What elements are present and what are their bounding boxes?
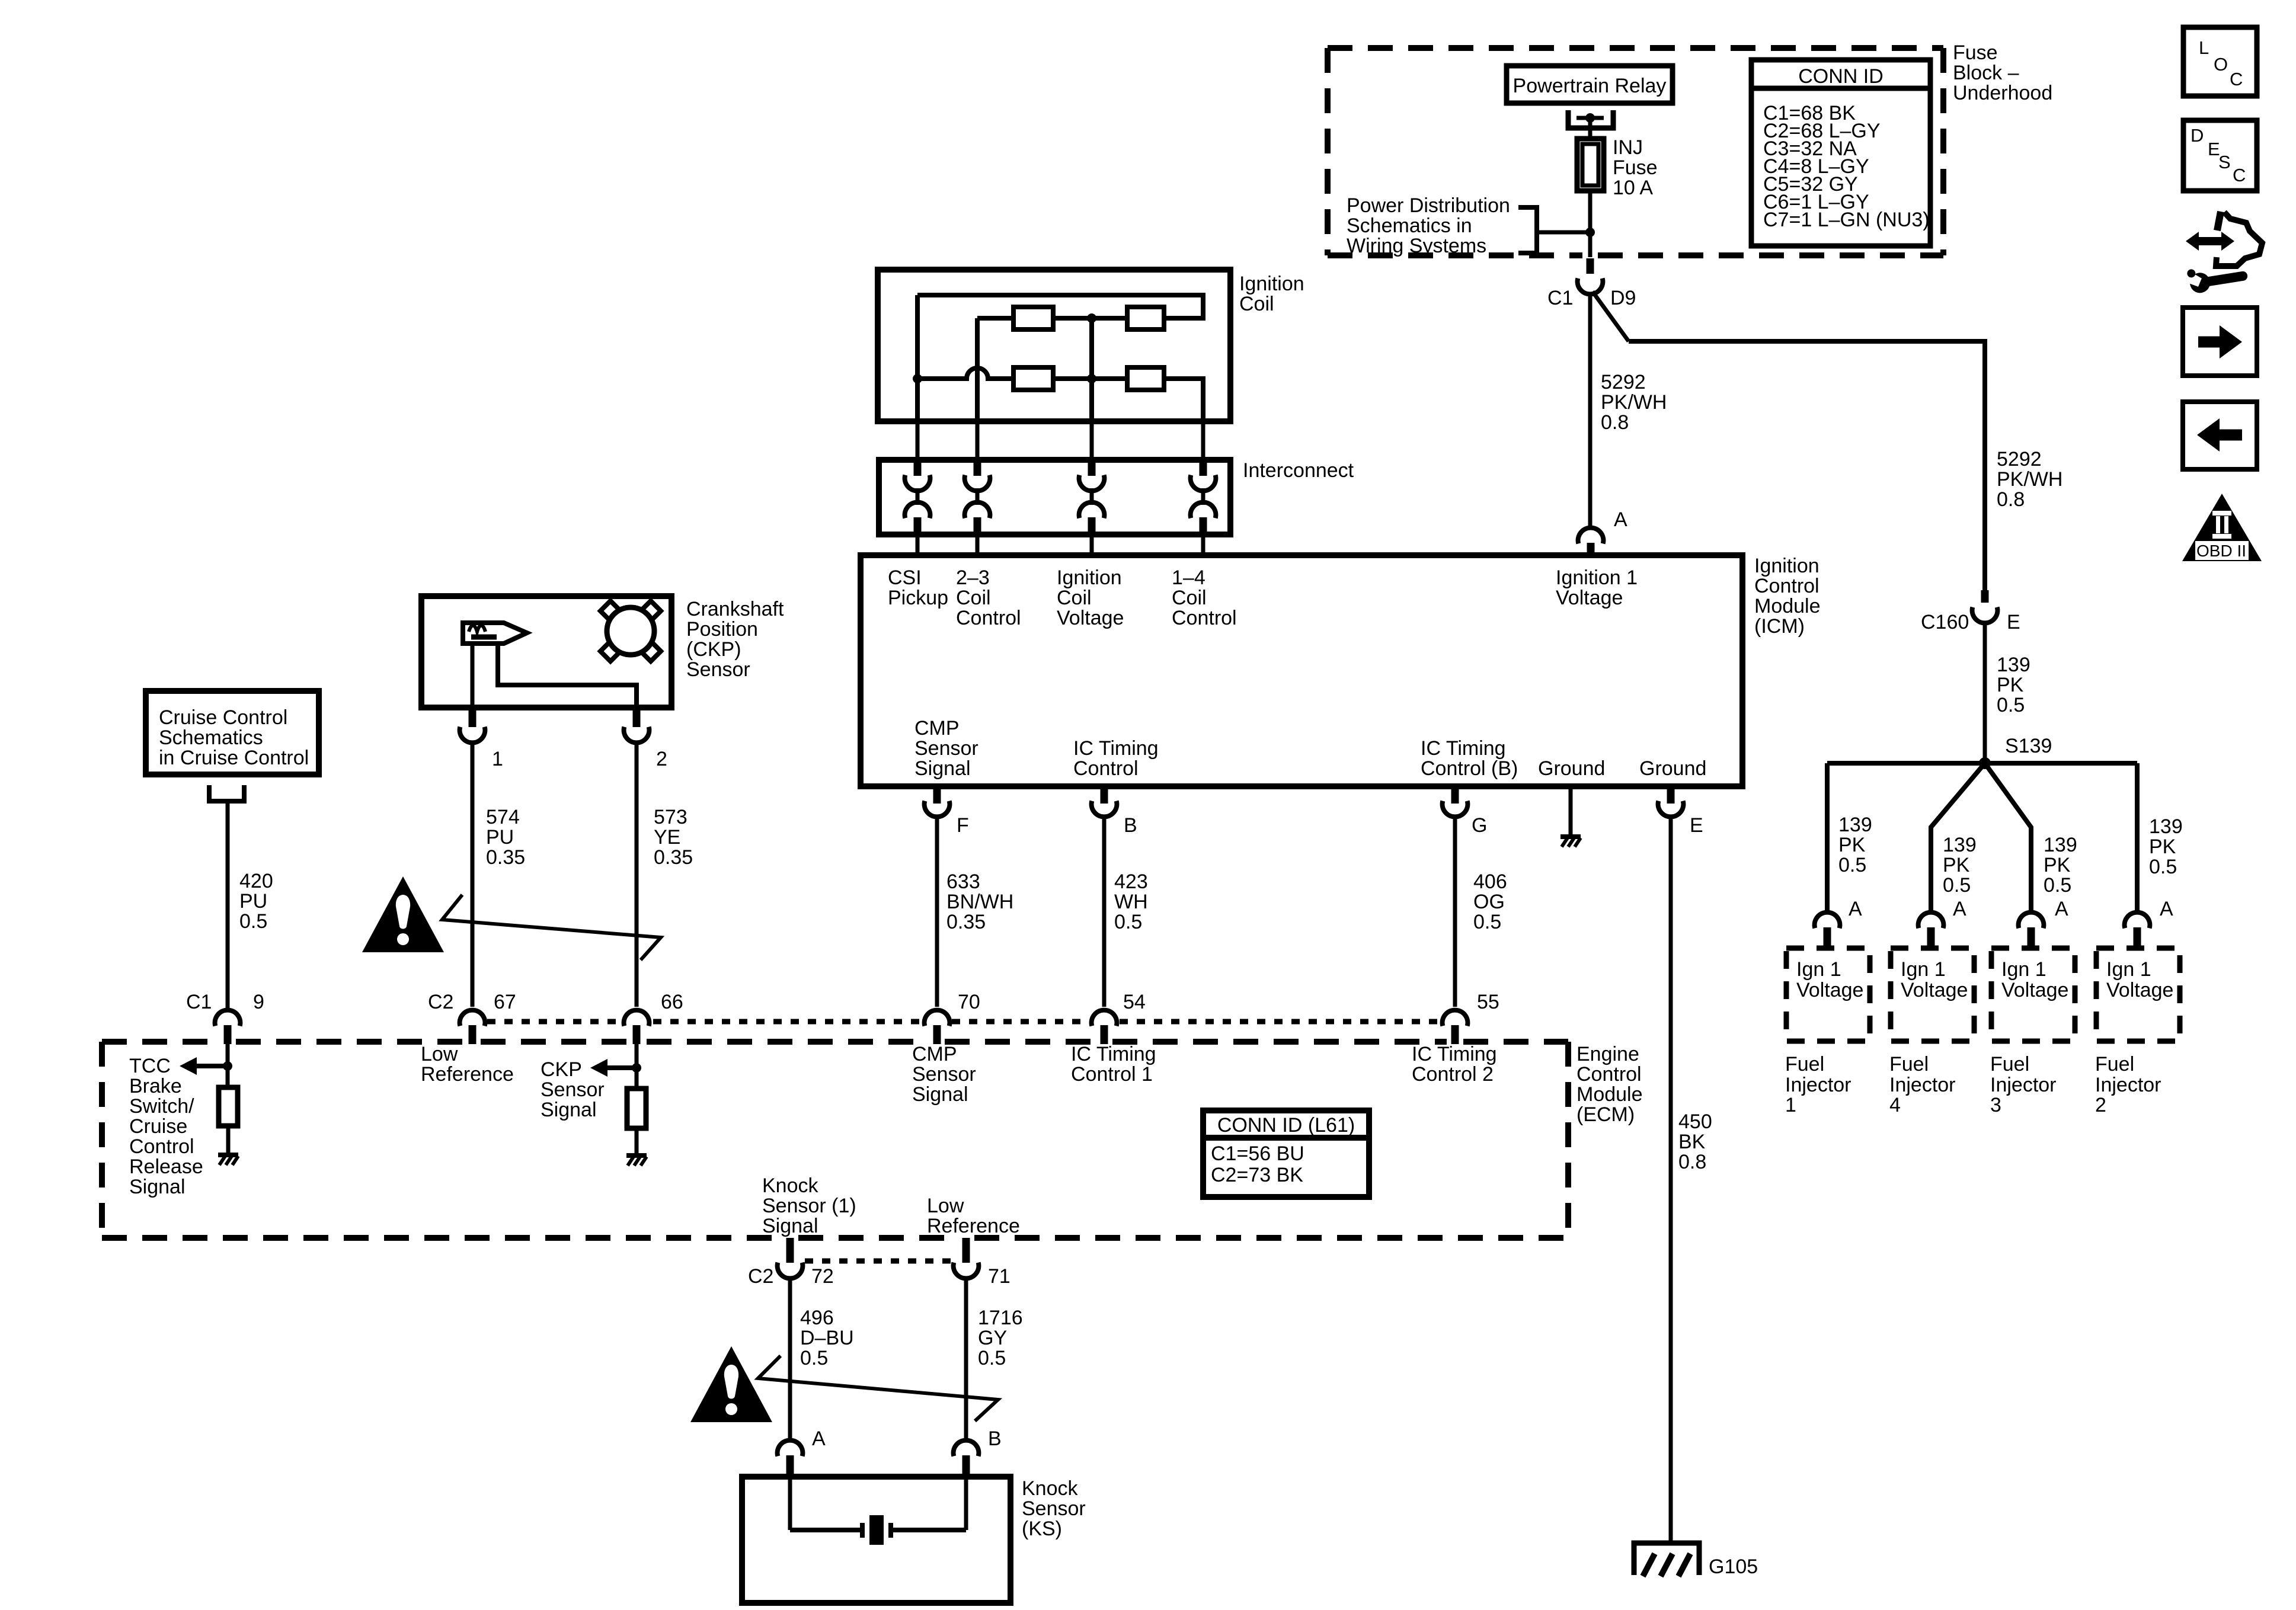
svg-text:72: 72 bbox=[811, 1265, 834, 1288]
svg-text:F: F bbox=[957, 814, 969, 837]
svg-text:67: 67 bbox=[494, 991, 516, 1013]
svg-text:PK/WH: PK/WH bbox=[1997, 468, 2062, 491]
svg-text:0.8: 0.8 bbox=[1997, 488, 2025, 511]
svg-text:496: 496 bbox=[800, 1307, 834, 1329]
svg-text:Engine: Engine bbox=[1576, 1043, 1639, 1065]
svg-text:10 A: 10 A bbox=[1613, 177, 1653, 199]
svg-text:0.5: 0.5 bbox=[1943, 874, 1971, 897]
svg-text:Powertrain Relay: Powertrain Relay bbox=[1513, 75, 1667, 97]
svg-text:Ignition: Ignition bbox=[1057, 566, 1122, 589]
svg-text:IC Timing: IC Timing bbox=[1421, 737, 1506, 760]
svg-text:Cruise: Cruise bbox=[129, 1115, 187, 1138]
svg-text:Signal: Signal bbox=[541, 1099, 597, 1121]
svg-text:Injector: Injector bbox=[2095, 1074, 2161, 1096]
svg-text:420: 420 bbox=[239, 870, 273, 892]
svg-text:CONN ID (L61): CONN ID (L61) bbox=[1217, 1114, 1355, 1137]
svg-text:1–4: 1–4 bbox=[1172, 566, 1205, 589]
svg-text:Coil: Coil bbox=[956, 587, 991, 609]
svg-text:IC Timing: IC Timing bbox=[1412, 1043, 1497, 1065]
svg-text:3: 3 bbox=[1990, 1094, 2001, 1116]
svg-text:IC Timing: IC Timing bbox=[1073, 737, 1159, 760]
svg-text:WH: WH bbox=[1114, 891, 1148, 913]
svg-text:2–3: 2–3 bbox=[956, 566, 990, 589]
svg-text:Interconnect: Interconnect bbox=[1243, 459, 1354, 482]
svg-text:573: 573 bbox=[654, 806, 687, 828]
svg-text:Sensor: Sensor bbox=[541, 1078, 605, 1101]
svg-text:OBD II: OBD II bbox=[2196, 542, 2246, 560]
svg-text:0.5: 0.5 bbox=[1838, 854, 1866, 876]
svg-text:54: 54 bbox=[1123, 991, 1146, 1013]
svg-text:66: 66 bbox=[661, 991, 683, 1013]
svg-text:Low: Low bbox=[927, 1195, 964, 1217]
svg-text:Switch/: Switch/ bbox=[129, 1095, 194, 1118]
svg-text:C: C bbox=[2230, 69, 2243, 89]
svg-text:0.8: 0.8 bbox=[1601, 411, 1629, 434]
svg-text:D: D bbox=[2191, 125, 2204, 146]
svg-text:Voltage: Voltage bbox=[2001, 979, 2068, 1001]
svg-text:TCC: TCC bbox=[129, 1055, 171, 1077]
svg-text:C2: C2 bbox=[748, 1265, 773, 1288]
svg-text:Underhood: Underhood bbox=[1953, 82, 2052, 104]
svg-text:B: B bbox=[1124, 814, 1137, 837]
svg-text:Cruise Control: Cruise Control bbox=[159, 706, 287, 729]
svg-text:Knock: Knock bbox=[1022, 1477, 1078, 1500]
svg-text:CONN ID: CONN ID bbox=[1798, 65, 1884, 88]
svg-text:Ign 1: Ign 1 bbox=[1796, 958, 1841, 981]
svg-text:Control 1: Control 1 bbox=[1071, 1063, 1153, 1086]
svg-text:PU: PU bbox=[486, 826, 514, 849]
svg-text:CMP: CMP bbox=[912, 1043, 957, 1065]
svg-text:B: B bbox=[988, 1427, 1002, 1450]
svg-text:Release: Release bbox=[129, 1156, 203, 1178]
svg-text:Block –: Block – bbox=[1953, 62, 2019, 84]
svg-text:4: 4 bbox=[1889, 1094, 1901, 1116]
svg-text:PK: PK bbox=[2044, 854, 2071, 876]
svg-text:70: 70 bbox=[958, 991, 980, 1013]
svg-text:Sensor: Sensor bbox=[686, 658, 750, 681]
svg-text:PU: PU bbox=[239, 890, 267, 913]
svg-text:C1: C1 bbox=[1547, 287, 1573, 309]
svg-text:139: 139 bbox=[1997, 654, 2030, 676]
svg-text:Signal: Signal bbox=[914, 757, 971, 780]
svg-text:Fuse: Fuse bbox=[1953, 41, 1998, 64]
svg-text:Ground: Ground bbox=[1639, 757, 1706, 780]
svg-text:in Cruise Control: in Cruise Control bbox=[159, 747, 309, 769]
svg-text:Reference: Reference bbox=[927, 1215, 1020, 1237]
svg-text:OG: OG bbox=[1473, 891, 1505, 913]
svg-text:Sensor (1): Sensor (1) bbox=[762, 1195, 856, 1217]
svg-text:Voltage: Voltage bbox=[1057, 607, 1124, 629]
svg-text:C2: C2 bbox=[428, 991, 453, 1013]
svg-text:0.5: 0.5 bbox=[978, 1347, 1006, 1369]
svg-text:Position: Position bbox=[686, 618, 758, 641]
svg-text:0.5: 0.5 bbox=[239, 910, 267, 933]
svg-text:(ICM): (ICM) bbox=[1754, 615, 1805, 638]
svg-text:C1: C1 bbox=[186, 991, 212, 1013]
svg-text:1716: 1716 bbox=[978, 1307, 1023, 1329]
svg-text:9: 9 bbox=[253, 991, 264, 1013]
svg-text:Power Distribution: Power Distribution bbox=[1347, 194, 1510, 217]
svg-text:0.35: 0.35 bbox=[654, 846, 693, 869]
svg-text:L: L bbox=[2199, 37, 2209, 58]
svg-text:A: A bbox=[1849, 898, 1862, 920]
svg-text:450: 450 bbox=[1678, 1110, 1712, 1133]
svg-text:INJ: INJ bbox=[1613, 136, 1643, 159]
svg-text:Voltage: Voltage bbox=[1901, 979, 1968, 1001]
svg-text:0.35: 0.35 bbox=[486, 846, 525, 869]
svg-text:Ignition 1: Ignition 1 bbox=[1556, 566, 1638, 589]
svg-text:Knock: Knock bbox=[762, 1174, 818, 1197]
svg-text:D–BU: D–BU bbox=[800, 1327, 854, 1349]
svg-text:BK: BK bbox=[1678, 1131, 1706, 1153]
svg-text:Fuse: Fuse bbox=[1613, 156, 1658, 179]
svg-text:55: 55 bbox=[1477, 991, 1499, 1013]
svg-text:139: 139 bbox=[2044, 834, 2077, 856]
svg-text:C2=73 BK: C2=73 BK bbox=[1211, 1164, 1303, 1186]
svg-text:Control 2: Control 2 bbox=[1412, 1063, 1494, 1086]
svg-text:A: A bbox=[812, 1427, 826, 1450]
svg-text:Reference: Reference bbox=[421, 1063, 514, 1086]
svg-text:Ign 1: Ign 1 bbox=[1901, 958, 1946, 981]
svg-text:Ground: Ground bbox=[1538, 757, 1605, 780]
svg-text:S139: S139 bbox=[2005, 735, 2052, 757]
svg-text:139: 139 bbox=[1838, 814, 1872, 836]
svg-text:Crankshaft: Crankshaft bbox=[686, 598, 784, 620]
svg-text:Voltage: Voltage bbox=[1796, 979, 1863, 1001]
svg-text:Control: Control bbox=[1172, 607, 1237, 629]
svg-text:139: 139 bbox=[1943, 834, 1977, 856]
svg-text:C160: C160 bbox=[1921, 611, 1969, 633]
svg-text:GY: GY bbox=[978, 1327, 1007, 1349]
svg-text:YE: YE bbox=[654, 826, 680, 849]
svg-text:E: E bbox=[1690, 814, 1703, 837]
svg-text:0.5: 0.5 bbox=[2149, 856, 2177, 878]
svg-text:Sensor: Sensor bbox=[914, 737, 978, 760]
svg-text:C1=56 BU: C1=56 BU bbox=[1211, 1142, 1304, 1165]
svg-text:Control: Control bbox=[1576, 1063, 1642, 1086]
svg-text:2: 2 bbox=[2095, 1094, 2106, 1116]
svg-text:E: E bbox=[2007, 611, 2020, 633]
svg-text:Schematics in: Schematics in bbox=[1347, 215, 1472, 237]
svg-text:Control: Control bbox=[1073, 757, 1139, 780]
svg-text:Voltage: Voltage bbox=[1556, 587, 1623, 609]
svg-text:A: A bbox=[2160, 898, 2173, 920]
svg-text:574: 574 bbox=[486, 806, 520, 828]
svg-text:0.35: 0.35 bbox=[946, 911, 986, 933]
svg-text:406: 406 bbox=[1473, 870, 1507, 893]
svg-text:Sensor: Sensor bbox=[912, 1063, 976, 1086]
svg-text:Fuel: Fuel bbox=[2095, 1053, 2134, 1076]
svg-text:CKP: CKP bbox=[541, 1058, 582, 1081]
svg-text:C: C bbox=[2233, 165, 2246, 185]
svg-text:CSI: CSI bbox=[888, 566, 922, 589]
svg-text:CMP: CMP bbox=[914, 717, 960, 740]
svg-text:Coil: Coil bbox=[1057, 587, 1092, 609]
svg-text:IC Timing: IC Timing bbox=[1071, 1043, 1156, 1065]
svg-text:2: 2 bbox=[656, 748, 667, 770]
svg-text:Low: Low bbox=[421, 1043, 458, 1065]
svg-text:139: 139 bbox=[2149, 815, 2183, 838]
svg-text:S: S bbox=[2218, 152, 2231, 172]
svg-text:0.5: 0.5 bbox=[1473, 911, 1501, 933]
svg-text:Fuel: Fuel bbox=[1990, 1053, 2029, 1076]
svg-text:Sensor: Sensor bbox=[1022, 1497, 1086, 1520]
svg-text:O: O bbox=[2214, 54, 2228, 75]
svg-text:1: 1 bbox=[492, 748, 503, 770]
svg-text:Signal: Signal bbox=[129, 1176, 186, 1198]
svg-text:71: 71 bbox=[988, 1265, 1011, 1288]
svg-text:PK: PK bbox=[2149, 836, 2176, 858]
svg-text:A: A bbox=[1953, 898, 1966, 920]
svg-text:(CKP): (CKP) bbox=[686, 638, 741, 661]
svg-text:Schematics: Schematics bbox=[159, 726, 263, 749]
svg-text:(ECM): (ECM) bbox=[1576, 1103, 1635, 1126]
svg-text:0.5: 0.5 bbox=[800, 1347, 828, 1369]
svg-text:Fuel: Fuel bbox=[1785, 1053, 1824, 1076]
svg-text:Voltage: Voltage bbox=[2106, 979, 2173, 1001]
svg-text:Injector: Injector bbox=[1785, 1074, 1851, 1096]
svg-text:Module: Module bbox=[1576, 1083, 1643, 1106]
svg-text:0.5: 0.5 bbox=[1114, 911, 1142, 933]
svg-text:D9: D9 bbox=[1610, 287, 1636, 309]
svg-text:5292: 5292 bbox=[1601, 371, 1646, 393]
svg-text:Pickup: Pickup bbox=[888, 587, 948, 609]
svg-text:Control: Control bbox=[129, 1135, 194, 1158]
svg-text:5292: 5292 bbox=[1997, 448, 2042, 470]
svg-text:PK: PK bbox=[1997, 674, 2024, 696]
svg-text:PK: PK bbox=[1838, 834, 1866, 856]
svg-text:PK: PK bbox=[1943, 854, 1970, 876]
svg-text:Coil: Coil bbox=[1239, 293, 1274, 315]
svg-text:633: 633 bbox=[946, 870, 980, 893]
svg-text:Ignition: Ignition bbox=[1239, 273, 1304, 295]
svg-text:PK/WH: PK/WH bbox=[1601, 391, 1667, 414]
svg-text:G105: G105 bbox=[1709, 1555, 1758, 1578]
svg-text:Brake: Brake bbox=[129, 1075, 182, 1097]
svg-text:BN/WH: BN/WH bbox=[946, 891, 1013, 913]
svg-text:Ignition: Ignition bbox=[1754, 555, 1819, 577]
svg-text:Wiring Systems: Wiring Systems bbox=[1347, 235, 1486, 257]
svg-text:G: G bbox=[1472, 814, 1487, 837]
svg-text:Fuel: Fuel bbox=[1889, 1053, 1929, 1076]
svg-text:A: A bbox=[1614, 508, 1627, 531]
svg-text:Ign 1: Ign 1 bbox=[2001, 958, 2046, 981]
svg-text:Control (B): Control (B) bbox=[1421, 757, 1518, 780]
svg-text:Coil: Coil bbox=[1172, 587, 1207, 609]
svg-text:Signal: Signal bbox=[912, 1083, 968, 1106]
svg-text:Control: Control bbox=[956, 607, 1021, 629]
svg-text:Injector: Injector bbox=[1889, 1074, 1956, 1096]
svg-text:A: A bbox=[2055, 898, 2068, 920]
svg-text:Signal: Signal bbox=[762, 1215, 818, 1237]
svg-text:(KS): (KS) bbox=[1022, 1518, 1062, 1540]
svg-text:Module: Module bbox=[1754, 595, 1821, 617]
svg-text:423: 423 bbox=[1114, 870, 1148, 893]
svg-text:Injector: Injector bbox=[1990, 1074, 2057, 1096]
svg-text:1: 1 bbox=[1785, 1094, 1796, 1116]
svg-text:0.5: 0.5 bbox=[2044, 874, 2071, 897]
svg-text:Ign 1: Ign 1 bbox=[2106, 958, 2151, 981]
svg-text:Control: Control bbox=[1754, 575, 1819, 597]
svg-text:0.5: 0.5 bbox=[1997, 694, 2025, 716]
svg-text:C7=1 L–GN (NU3): C7=1 L–GN (NU3) bbox=[1763, 209, 1930, 231]
svg-text:0.8: 0.8 bbox=[1678, 1151, 1706, 1173]
